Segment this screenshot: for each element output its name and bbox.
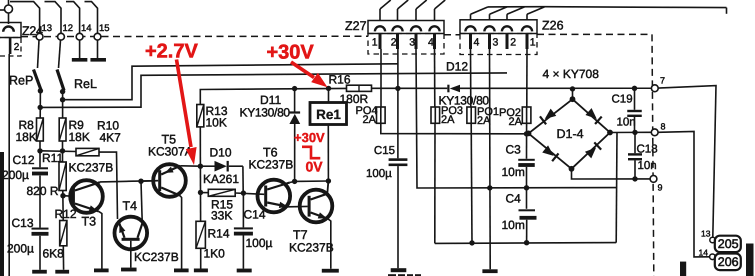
svg-text:D12: D12 [446, 60, 468, 74]
svg-text:100µ: 100µ [246, 236, 273, 250]
svg-text:D10: D10 [210, 146, 232, 160]
Z27 pin 3 bar [415, 34, 418, 49]
resistor R13 [197, 105, 204, 127]
resistor R8 [37, 118, 44, 141]
svg-text:2: 2 [14, 42, 20, 53]
wire Z24 pin 2 down left edge [8, 54, 10, 276]
wire node down to R15 row [199, 166, 201, 192]
wire T7 emitter to ground [328, 219, 331, 269]
ground under C14 [237, 269, 252, 273]
wire R12 to ground [62, 246, 64, 270]
resistor R11 [59, 162, 66, 191]
wire above pin 13 [10, 2, 40, 34]
wire bus D12 to bridge and node 7 [460, 87, 651, 89]
wire Re1 bottom [327, 125, 329, 182]
wire PO2 to bridge left node [526, 123, 528, 159]
svg-text:C12: C12 [13, 153, 35, 167]
wire D11 row (T6 collector rail) [295, 180, 329, 182]
wire node down to R14 [200, 193, 202, 222]
wire node 7 to pin 13 [658, 86, 716, 238]
wire Z27 pin2 down to C15 and ground [397, 49, 399, 158]
capacitor C4 [519, 209, 536, 211]
svg-text:D1-4: D1-4 [557, 127, 584, 141]
node 15 (pin circle) [94, 33, 101, 40]
svg-text:KA261: KA261 [203, 172, 239, 186]
wire Z26 pin4 down through fuse PO1 [470, 49, 472, 107]
Z26 pin 4 bar [469, 34, 472, 49]
svg-text:T3: T3 [82, 215, 97, 229]
transistor T7 [300, 190, 333, 223]
svg-text:13: 13 [701, 229, 711, 239]
svg-text:C4: C4 [506, 192, 522, 206]
wire pin 15 to ground [97, 40, 99, 58]
wire above Z27 pin 3 [415, 9, 417, 21]
fuse PO1 [467, 107, 476, 123]
ground under C15 [391, 268, 407, 272]
wire above Z26 pin 1 [526, 14, 528, 20]
Z26 contact arc pin 3 [484, 26, 494, 31]
node Re1 top on bus (+30V) [326, 86, 331, 91]
node 7 (test point) [651, 85, 658, 92]
svg-text:KC237B: KC237B [69, 161, 114, 175]
transistor T6 [258, 180, 291, 213]
connector box 205 [715, 236, 741, 252]
wire Z26 chain to top right corner [488, 6, 545, 8]
relay contact ReP [38, 40, 40, 68]
node T4 collector junction [138, 179, 143, 184]
svg-text:205: 205 [718, 237, 739, 251]
transistor T3 [70, 180, 103, 213]
wire R11 to R12 / T3 base node [62, 191, 64, 221]
diode D10 KA261 [203, 165, 215, 167]
svg-text:KY130/80: KY130/80 [240, 106, 291, 120]
ground under pin 14 [72, 58, 88, 62]
wire +30V bus [372, 87, 448, 89]
connector Z24 [8, 0, 10, 5]
ground under T4 [121, 268, 137, 272]
svg-text:200µ: 200µ [2, 168, 29, 182]
wire T4 bottom to ground [130, 241, 132, 268]
svg-text:3: 3 [493, 37, 499, 49]
svg-text:10n: 10n [617, 117, 636, 129]
svg-text:8: 8 [661, 122, 666, 132]
svg-text:2A: 2A [441, 114, 455, 126]
relay Re1 [328, 88, 330, 102]
svg-text:14: 14 [699, 248, 709, 258]
wire above Z26 pin 2 [506, 14, 508, 20]
svg-text:KC237B: KC237B [289, 241, 334, 255]
svg-text:1: 1 [372, 37, 378, 49]
svg-text:Z26: Z26 [542, 19, 564, 33]
wire PO3 down to 0V rail [434, 123, 436, 243]
Z27 pin 1 bar [379, 34, 382, 49]
bridge diode bottom-right [585, 148, 596, 159]
wire T3 emitter to ground [99, 211, 102, 268]
Z26 contact arc pin 2 [502, 26, 512, 31]
wire above pin 14 [66, 2, 80, 34]
wire T5 base [141, 180, 158, 183]
diode D12 KY130/80 [447, 85, 449, 93]
connector Z27 [368, 21, 444, 34]
node 12 (pin circle) [58, 33, 65, 40]
wire node to C14 [242, 193, 244, 227]
node C19 top on bus [632, 86, 637, 91]
node D11 top on bus [292, 86, 297, 91]
wire ReP to R8 / node [39, 91, 41, 118]
svg-text:18K: 18K [16, 130, 37, 144]
wire bus left corner into R13 [200, 88, 346, 104]
svg-text:ReP: ReP [9, 74, 33, 88]
Z26 pin 1 bar [526, 34, 529, 49]
bridge diode bottom-left [542, 145, 553, 156]
node 9 (test point) [650, 176, 657, 183]
wire T7 collector to Re1 node [327, 181, 328, 194]
wire 0V riser to bridge right rail [615, 132, 618, 242]
relay contact ReL [59, 40, 61, 68]
svg-text:C15: C15 [374, 145, 395, 157]
Z24 pin 2 bar [9, 38, 12, 54]
Z27 contact arc pin 2 [392, 26, 402, 31]
svg-text:+2.7V: +2.7V [145, 41, 198, 63]
Z26 contact arc pin 4 [465, 26, 475, 31]
svg-text:KC307A: KC307A [148, 145, 193, 159]
svg-text:10K: 10K [206, 116, 227, 130]
svg-text:Re1: Re1 [316, 107, 341, 122]
svg-text:180R: 180R [340, 92, 369, 106]
svg-text:R11: R11 [42, 151, 63, 165]
wire Z27 pin3 down to C3/C4 mid rail [416, 49, 617, 188]
wire D10 cathode down to C14 node [242, 166, 244, 193]
wire T6 emitter to T7 base [289, 205, 308, 207]
wire Z26 pin3 down to ground [489, 49, 492, 269]
wire junction row y150.8 [40, 150, 76, 153]
annotation step waveform (red) [302, 147, 320, 158]
wire above Z27 pin 1 [379, 9, 381, 21]
annotation arrow +30V to R16 node (red) [291, 62, 314, 78]
annotation arrow +2.7V to D10 node (red) [177, 60, 192, 148]
svg-text:1: 1 [530, 37, 536, 49]
svg-text:+30V: +30V [267, 42, 315, 64]
fuse PO3 [431, 107, 440, 123]
capacitor C15 [389, 158, 408, 161]
wire T5 collector to ground [180, 196, 182, 269]
capacitor C13 [32, 228, 49, 230]
wire 0V rail [435, 242, 616, 245]
wire above pin 12 [45, 2, 62, 34]
svg-text:33K: 33K [211, 209, 232, 223]
svg-text:12: 12 [63, 23, 74, 34]
svg-text:+30V: +30V [294, 130, 325, 145]
wire Z27 pin4 down through fuse PO3 [434, 49, 436, 107]
svg-text:15: 15 [99, 23, 110, 34]
bridge rectifier D1-4 [572, 89, 574, 99]
svg-text:4: 4 [474, 37, 480, 49]
svg-text:3: 3 [409, 37, 415, 49]
wire pin 14 to ground [79, 40, 81, 58]
ground under T7 emitter [322, 269, 339, 273]
ground under T3 emitter [94, 269, 109, 273]
wire R10 right to T4 emitter riser [99, 152, 118, 219]
wire T5 emitter to D10 row [180, 165, 200, 167]
svg-text:14: 14 [81, 23, 92, 34]
svg-text:Z27: Z27 [345, 19, 367, 33]
capacitor C12 [32, 167, 48, 169]
node pin 14 circle [710, 254, 716, 260]
svg-text:6K8: 6K8 [43, 247, 65, 261]
wire ReL node to Z27 pin 2 (long run) [63, 64, 399, 100]
svg-text:2A: 2A [509, 116, 523, 128]
wire T4 collector riser [141, 181, 142, 221]
Z27 contact arc pin 1 [375, 26, 385, 31]
svg-text:10m: 10m [502, 165, 525, 179]
Z27 contact arc pin 4 [429, 26, 439, 31]
fuse PO4 [377, 107, 386, 123]
resistor R12 [60, 221, 67, 246]
wire above Z27 pin 2 [397, 9, 399, 21]
node pin 13 circle [710, 237, 716, 243]
svg-text:C18: C18 [637, 144, 658, 156]
ground under R12 [55, 270, 69, 274]
wire T6 collector to D11 node [290, 181, 295, 182]
node mid rail Z26 pin3 [487, 185, 492, 190]
wire R14 to ground [200, 248, 202, 268]
wire C12 to C13 [39, 176, 41, 228]
node Z27 pin2 on bus [395, 86, 400, 91]
ground under C13 [32, 270, 47, 274]
Z27 pin 2 bar [396, 34, 399, 49]
wire above pin 15 [85, 2, 98, 34]
svg-text:7: 7 [660, 76, 665, 86]
node bridge top on bus [570, 86, 575, 91]
node C18 top [632, 130, 637, 135]
svg-text:KC237B: KC237B [134, 250, 179, 264]
svg-text:C19: C19 [612, 94, 633, 106]
wire bridge bottom to node 9 [572, 169, 651, 179]
Z26 contact arc pin 1 [522, 26, 532, 31]
wire T3 base [63, 195, 72, 198]
wire PO4 to AC rail [381, 123, 527, 134]
resistor R15 [203, 192, 208, 194]
wire above Z27 pin 4 [434, 9, 436, 21]
resistor R16 [347, 85, 372, 91]
Z26 pin 2 bar [506, 34, 509, 49]
capacitor C3 [518, 159, 535, 161]
svg-text:ReL: ReL [74, 77, 97, 91]
fuse PO2 [522, 107, 531, 123]
svg-text:T4: T4 [123, 199, 138, 213]
wire R15 to T6 base [235, 193, 264, 194]
Z26 pin 3 bar [488, 34, 491, 49]
svg-text:2: 2 [510, 37, 516, 49]
diode D11 KY130/80 [294, 91, 296, 112]
wire ReP node to Z26 pin 2 (long run) [40, 73, 507, 108]
Z27 pin 4 bar [433, 34, 436, 49]
bridge diode top-left [545, 109, 557, 119]
svg-text:R16: R16 [329, 73, 351, 87]
svg-text:4 × KY708: 4 × KY708 [543, 67, 600, 81]
node 8 (test point) [651, 129, 658, 136]
Z27 contact arc pin 3 [411, 26, 421, 31]
svg-text:13: 13 [42, 23, 53, 34]
wire above Z26 pin 3 [489, 14, 491, 20]
ground under R14 [194, 269, 208, 273]
connector box 206 [715, 254, 741, 271]
wire Z27 pin1 down through fuse PO4 [380, 49, 382, 107]
node PO1 on 0V rail [469, 240, 474, 245]
wire C13 to ground [39, 236, 41, 270]
svg-text:820 R: 820 R [27, 184, 59, 198]
node C4 on 0V rail [524, 240, 529, 245]
svg-text:10m: 10m [502, 218, 525, 232]
connector Z26 [460, 20, 537, 34]
node 13 (pin circle) [36, 33, 43, 40]
wire node to R11 [62, 141, 64, 162]
resistor R10 [76, 148, 99, 155]
bridge diode top-right [585, 108, 596, 119]
wire PO1 down to 0V rail [470, 123, 473, 243]
svg-text:0V: 0V [306, 159, 324, 175]
svg-text:1K0: 1K0 [204, 246, 226, 260]
ground under T5 collector [174, 269, 189, 273]
node C18 bottom [632, 176, 637, 181]
resistor R14 [196, 221, 205, 248]
svg-text:KC237B: KC237B [249, 158, 294, 172]
svg-text:10n: 10n [638, 160, 657, 172]
wire ReL to R9 / node [62, 92, 64, 118]
svg-text:100µ: 100µ [366, 168, 392, 180]
capacitor C19 [634, 88, 636, 110]
module boundary dashed line [21, 35, 368, 37]
svg-text:206: 206 [718, 255, 739, 269]
svg-text:2: 2 [391, 37, 397, 49]
wire C3 to mid rail [526, 167, 528, 209]
svg-text:2A: 2A [363, 114, 377, 126]
wire R13 to D10 node [199, 127, 201, 166]
transistor T5 [153, 164, 186, 197]
wire above Z26 pin 4 [470, 14, 472, 20]
resistor R9 [59, 118, 66, 141]
wire C14 to ground [242, 236, 244, 269]
capacitor C14 [234, 227, 253, 229]
node bridge left / AC rail [524, 131, 529, 136]
node mid rail C3/C4 [524, 185, 529, 190]
svg-text:4: 4 [428, 37, 434, 49]
node D11 bottom [292, 179, 297, 184]
svg-text:18K: 18K [69, 130, 90, 144]
ground under pin 15 [90, 58, 106, 62]
wire C15 to ground [397, 166, 399, 268]
node 14 (pin circle) [76, 33, 83, 40]
svg-text:R14: R14 [208, 227, 230, 241]
node C14 junction [241, 190, 246, 195]
wire bridge right to node 8 [610, 131, 651, 133]
capacitor C18 [634, 132, 636, 153]
wire node 8 to pin 14 [658, 131, 710, 257]
transistor T4 [115, 217, 148, 250]
svg-text:C13: C13 [12, 216, 34, 230]
wire R8 node down to C12 [39, 141, 41, 167]
svg-text:9: 9 [658, 183, 663, 193]
svg-text:4K7: 4K7 [100, 131, 122, 145]
node Re1 bottom [326, 178, 331, 183]
node D10 anode junction [198, 164, 203, 169]
wire Z26 pin1 down through fuse PO2 [526, 49, 528, 107]
wire T3 collector row to T5 base [100, 181, 158, 182]
wire C4 to 0V rail [526, 220, 528, 243]
ground under Z26 pin3 [482, 269, 497, 273]
svg-text:C3: C3 [506, 143, 522, 157]
svg-text:200µ: 200µ [7, 242, 34, 256]
